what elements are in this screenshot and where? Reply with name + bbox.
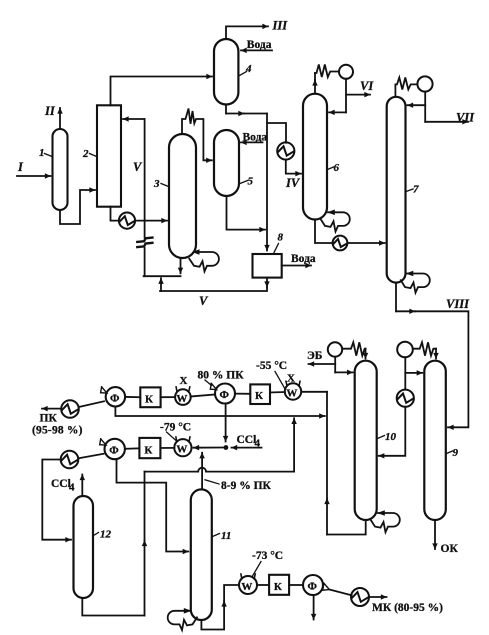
label -55 C with tick xyxy=(256,360,287,388)
reboiler loop column 11 xyxy=(168,608,197,630)
svg-text:-73 °С: -73 °С xyxy=(252,550,283,562)
stream VII arrow xyxy=(425,121,468,123)
wire heat exchanger to column 7 feed xyxy=(347,242,384,244)
condenser zigzag column 6 xyxy=(315,65,339,78)
svg-text:Ф: Ф xyxy=(109,445,119,457)
svg-text:CCl: CCl xyxy=(237,434,257,446)
label 10 with tick xyxy=(378,431,397,443)
svg-text:VIII: VIII xyxy=(446,297,470,311)
wire condensate into column 10 xyxy=(379,407,406,456)
label -79 C with tick xyxy=(160,422,191,442)
wire column 1 bottoms to column 2 xyxy=(60,190,95,224)
wire F3 bottoms to column 11 feed xyxy=(117,460,189,552)
wire column 10 bottoms to riser xyxy=(327,520,366,535)
reflux drum column 10 xyxy=(328,342,342,356)
reflux drum column 9 xyxy=(397,342,413,358)
heat exchanger between column 6 and 7 xyxy=(333,236,348,251)
reboiler loop column 6 xyxy=(320,210,349,232)
heat exchanger on column 9 condensate xyxy=(397,390,414,407)
diagonal wire F1 to heat exchanger PK xyxy=(79,401,104,407)
heat exchanger MK product xyxy=(351,588,369,606)
label 11 with tick xyxy=(213,530,232,542)
label 7 with tick xyxy=(406,184,419,196)
reflux drum column 6 xyxy=(339,65,353,79)
wire riser top to cooler W2 xyxy=(302,391,327,393)
svg-text:(95-98 %): (95-98 %) xyxy=(32,425,83,437)
wire column 9 bottoms OK product xyxy=(434,520,436,549)
reboiler loop column 10 xyxy=(370,510,400,532)
wire V recycle riser upper segment xyxy=(144,119,146,238)
svg-text:12: 12 xyxy=(100,529,112,541)
svg-text:ОК: ОК xyxy=(441,543,459,555)
column 2 xyxy=(97,105,121,206)
diagonal wire F3 to heat exchanger CCl4 xyxy=(78,454,103,459)
svg-text:4: 4 xyxy=(69,482,75,494)
recycle riser from column 12 with up arrow xyxy=(144,472,146,616)
stream EB arrow xyxy=(309,363,336,365)
wire F2 to cooler W1 xyxy=(191,395,215,397)
wire reflux arrow into column 10 xyxy=(335,371,353,373)
riser from column 10 bottoms with up arrow xyxy=(326,392,328,535)
wire column 3 bottoms down arrow xyxy=(180,259,182,274)
svg-text:К: К xyxy=(145,393,153,405)
CCl4 makeup label xyxy=(237,434,261,450)
svg-text:4: 4 xyxy=(255,438,261,450)
wire K2 to separator F2 xyxy=(235,393,250,395)
cooler W2 with X xyxy=(285,381,301,399)
wire column 3 overhead with heater zigzag to column 5 xyxy=(182,109,212,161)
wire F2 bottoms down to CCl4 junction xyxy=(225,404,227,442)
svg-text:W: W xyxy=(176,393,187,405)
reboiler loop column 3 xyxy=(189,249,219,271)
heat exchanger CCl4 recycle xyxy=(61,451,79,469)
riser joining recycle header with up arrow xyxy=(293,418,295,471)
MK product arrow xyxy=(369,596,387,598)
svg-text:Вода: Вода xyxy=(247,39,272,51)
label 12 with tick xyxy=(94,529,112,541)
wire lower V header xyxy=(144,275,181,277)
stream I feed arrow into column 1 xyxy=(17,175,51,177)
wire K3 to separator F3 xyxy=(125,447,139,450)
wire column 7 bottoms stream VIII xyxy=(396,283,468,428)
column 9 xyxy=(424,361,446,520)
stream VI arrow xyxy=(346,94,370,96)
condenser zigzag column 7 xyxy=(395,78,417,97)
svg-text:Ф: Ф xyxy=(110,392,120,404)
compressor K3 xyxy=(139,438,160,458)
compressor K1 xyxy=(140,387,160,407)
label 5 with tick xyxy=(240,176,254,188)
heat exchanger after column 2 xyxy=(119,213,135,229)
svg-text:Ф: Ф xyxy=(308,581,318,593)
notch triangle on F3 xyxy=(100,439,106,445)
wire column 12 bottoms to recycle riser xyxy=(82,598,144,616)
wire column 11 bottoms xyxy=(201,585,238,630)
svg-text:IV: IV xyxy=(285,176,301,190)
svg-text:VI: VI xyxy=(360,79,374,93)
svg-text:К: К xyxy=(144,444,152,456)
label -73 C with tick xyxy=(252,550,283,576)
notch triangle on F2 xyxy=(210,383,216,389)
wire W3 to compressor K3 xyxy=(160,447,174,449)
wire column 5 bottoms xyxy=(227,196,266,230)
CCl4 overhead label xyxy=(51,478,75,494)
svg-text:ПК: ПК xyxy=(40,413,58,425)
wire vessel 8 bottoms down xyxy=(160,278,267,291)
svg-text:К: К xyxy=(274,581,282,593)
PK product arrow xyxy=(42,408,61,410)
svg-text:11: 11 xyxy=(221,530,231,542)
water outlet arrow from vessel 8 xyxy=(282,265,311,267)
wire reflux arrow into column 7 xyxy=(408,104,426,106)
column 7 xyxy=(387,97,406,283)
svg-text:5: 5 xyxy=(248,176,254,188)
condenser zigzag column 9 xyxy=(413,342,436,355)
reboiler loop column 7 xyxy=(401,271,430,293)
wire branch to heat exchanger IV xyxy=(267,123,286,143)
svg-text:Вода: Вода xyxy=(291,253,316,265)
label 8 with tick xyxy=(274,232,284,253)
break symbol on V riser xyxy=(137,238,152,248)
wire K4 to separator F4 xyxy=(289,584,303,586)
svg-text:6: 6 xyxy=(334,162,340,174)
svg-text:III: III xyxy=(272,19,289,33)
label 9 with tick xyxy=(447,447,459,459)
wire column 11 overhead riser xyxy=(201,453,203,490)
column 1 xyxy=(53,129,68,210)
wire column 6 overhead riser with up arrow xyxy=(314,73,316,94)
svg-text:8: 8 xyxy=(278,232,284,244)
cooler W4 xyxy=(239,574,257,594)
separator F2 xyxy=(215,384,235,404)
wire drum down column 7 xyxy=(424,92,426,122)
svg-text:10: 10 xyxy=(385,431,397,443)
wire W2 to compressor K2 xyxy=(270,391,285,394)
column 3 xyxy=(169,134,196,258)
svg-text:8-9 % ПК: 8-9 % ПК xyxy=(221,480,272,492)
CCl4 makeup arrow xyxy=(232,447,262,449)
separator F3 xyxy=(105,439,125,459)
label 3 with tick xyxy=(153,178,169,190)
column 11 xyxy=(191,489,212,620)
stream III arrow from column 4 top xyxy=(226,26,268,39)
svg-text:II: II xyxy=(44,104,56,118)
cooler W1 with X xyxy=(175,387,191,405)
heat exchanger IV xyxy=(277,142,294,159)
column 6 xyxy=(303,94,327,220)
wire condenser down into column 9 top xyxy=(435,349,437,359)
wire W1 to compressor K1 xyxy=(161,396,176,398)
wire V recycle riser lower segment xyxy=(144,248,146,276)
wire heat exchanger to column 3 feed xyxy=(135,220,167,222)
svg-text:МК (80-95 %): МК (80-95 %) xyxy=(372,602,443,614)
wire riser to upper V line xyxy=(160,278,162,291)
svg-text:Вода: Вода xyxy=(243,132,268,144)
column 5 xyxy=(214,130,239,196)
svg-text:1: 1 xyxy=(39,147,45,159)
svg-text:VII: VII xyxy=(456,111,475,125)
label 80 % PK with tick xyxy=(198,370,245,386)
column 4 xyxy=(214,39,238,105)
separator F4 xyxy=(303,575,323,595)
svg-text:3: 3 xyxy=(153,178,160,190)
wire K1 to separator F1 xyxy=(125,396,140,398)
svg-text:CCl: CCl xyxy=(51,478,71,490)
condenser zigzag column 10 xyxy=(342,342,365,355)
vessel 8 xyxy=(253,254,282,278)
CCl4 overhead arrow from column 12 xyxy=(81,475,83,497)
svg-text:W: W xyxy=(176,444,187,456)
svg-text:W: W xyxy=(241,581,252,593)
svg-text:X: X xyxy=(287,373,295,385)
svg-text:W: W xyxy=(286,387,297,399)
wire column 6 bottoms to heat exchanger xyxy=(315,220,333,244)
svg-text:V: V xyxy=(199,294,209,308)
svg-text:7: 7 xyxy=(413,184,419,196)
compressor K4 xyxy=(269,575,289,595)
compressor K2 xyxy=(250,384,270,404)
wire F1 bottoms to recycle header xyxy=(115,407,324,416)
wire junction to cooler W3 xyxy=(194,447,224,449)
wire column 2 overhead to column 4 xyxy=(111,77,213,106)
label 6 with tick xyxy=(328,162,340,174)
wire drum down column 10 xyxy=(334,357,336,373)
wire V recycle arrow into column 2 xyxy=(123,118,145,120)
heat exchanger PK product xyxy=(61,400,79,418)
svg-text:К: К xyxy=(255,390,263,402)
wire reflux arrow into column 9 xyxy=(405,372,422,374)
label 1 with tick xyxy=(39,147,52,159)
stream II arrow from column 1 top xyxy=(59,108,61,129)
wire heat exchanger to column 12 feed xyxy=(42,460,71,540)
column 12 xyxy=(74,496,94,598)
cooler W3 xyxy=(174,437,191,456)
water inlet arrow into column 4 xyxy=(241,49,272,51)
water inlet arrow into column 5 xyxy=(241,141,263,143)
label 8-9 % PK with tick xyxy=(205,480,272,492)
svg-text:9: 9 xyxy=(453,447,459,459)
svg-text:I: I xyxy=(17,160,24,174)
svg-text:Ф: Ф xyxy=(220,389,230,401)
svg-text:4: 4 xyxy=(245,63,252,75)
CCl4 junction dot xyxy=(224,445,229,450)
wire column 2 bottoms to heat exchanger xyxy=(111,207,119,221)
separator F1 xyxy=(106,387,125,406)
wire drop to vessel 8 xyxy=(266,114,268,251)
wire drum down column 6 xyxy=(345,79,347,113)
column 10 xyxy=(355,361,377,520)
label 2 with tick xyxy=(82,148,97,160)
wire F4 bottoms down arrow xyxy=(313,595,315,620)
wire heat exchanger IV to column 6 feed xyxy=(286,160,301,174)
wire W4 to compressor K4 xyxy=(257,584,269,586)
wire reflux arrow into column 6 xyxy=(329,111,346,113)
label 4 with tick xyxy=(240,63,253,76)
wire column 4 bottoms horizontal with mid arrow xyxy=(226,105,267,114)
svg-text:-55 °С: -55 °С xyxy=(256,360,287,372)
diagonal wire F4 to heat exchanger MK xyxy=(329,589,352,595)
reflux drum column 7 xyxy=(417,76,432,91)
svg-text:-79 °С: -79 °С xyxy=(160,422,191,434)
svg-text:V: V xyxy=(133,160,143,174)
svg-text:ЭБ: ЭБ xyxy=(307,350,323,362)
wire drum down column 9 xyxy=(404,357,406,389)
wire condenser down into column 10 top xyxy=(365,349,367,359)
svg-text:2: 2 xyxy=(82,148,89,160)
svg-text:X: X xyxy=(180,375,188,387)
notch triangle on F4 xyxy=(323,583,330,590)
wire recycle cross header to riser 294 xyxy=(145,468,295,472)
notch triangle on F1 xyxy=(101,387,107,393)
